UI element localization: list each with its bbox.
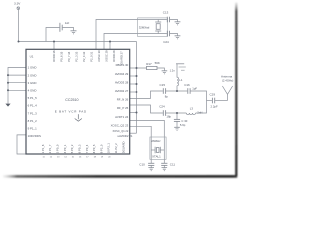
- capacitor C14 plates: [166, 31, 168, 37]
- capacitor C10 plates: [148, 162, 154, 164]
- bottom pin labels (rotated): [41, 141, 126, 153]
- svg-text:17: 17: [86, 157, 89, 159]
- crystal X2 stubs: [157, 20, 159, 23]
- wire top pin DVDD left stub: [53, 42, 55, 50]
- wire C11 to ground: [163, 165, 165, 167]
- wire R17 to ground: [157, 68, 164, 71]
- bottom pin numbers: [43, 157, 112, 159]
- wire RBIAS: [130, 67, 147, 69]
- wire RF_N: [130, 105, 163, 113]
- svg-text:R17: R17: [146, 62, 152, 66]
- ground (C10): [148, 168, 154, 171]
- svg-text:16: 16: [79, 157, 82, 159]
- stub AVDD 21: [130, 132, 137, 134]
- ground (C14): [175, 36, 181, 39]
- svg-text:2.2pF: 2.2pF: [211, 104, 218, 108]
- svg-text:4 P0_1: 4 P0_1: [63, 144, 67, 153]
- svg-text:5 P0_2: 5 P0_2: [70, 144, 74, 153]
- inductor L3 horizontal: [186, 113, 195, 115]
- svg-text:2 GND: 2 GND: [28, 73, 37, 77]
- svg-text:C24: C24: [163, 40, 169, 44]
- wire XOSC top 2: [104, 34, 167, 50]
- page drop shadow right edge: [3, 3, 237, 178]
- svg-text:P2_4 32: P2_4 32: [82, 51, 86, 62]
- capacitor C16 plates: [187, 88, 189, 94]
- svg-text:1 GND: 1 GND: [28, 66, 37, 70]
- svg-text:RF_P 25: RF_P 25: [117, 106, 129, 110]
- capacitor C24 plates: [162, 110, 164, 116]
- capacitor C11 plates: [161, 162, 167, 164]
- resistor R17 body: [147, 66, 158, 69]
- capacitor C1 plates: [59, 23, 61, 32]
- crystal module box bottom: [150, 137, 166, 159]
- decoration center mark: [75, 114, 82, 121]
- svg-text:DVDD 36: DVDD 36: [52, 50, 56, 62]
- ground symbols: [5, 22, 180, 171]
- svg-text:26MHz: 26MHz: [151, 139, 161, 143]
- page drop shadow bottom edge: [3, 175, 237, 178]
- svg-text:E BAT VCR PAD: E BAT VCR PAD: [55, 109, 87, 113]
- svg-text:XOSC 29: XOSC 29: [104, 50, 108, 62]
- L1 top bar symbol: [176, 63, 184, 65]
- wire RF_P mid: [166, 90, 187, 92]
- svg-text:11: 11: [43, 157, 46, 159]
- svg-text:L1: L1: [179, 78, 183, 82]
- stub AVDD 27: [130, 91, 137, 93]
- left pin labels: [28, 66, 41, 138]
- svg-text:DVDD 28: DVDD 28: [112, 50, 116, 62]
- wire C30 to ground: [176, 121, 178, 127]
- svg-text:XOSC 30: XOSC 30: [97, 50, 101, 62]
- wire RF_P to joint: [191, 91, 207, 101]
- svg-text:C24: C24: [159, 105, 165, 109]
- svg-text:1uF: 1uF: [65, 21, 70, 25]
- svg-text:12: 12: [50, 157, 53, 159]
- svg-text:10 P2_1: 10 P2_1: [107, 143, 111, 154]
- wire top pin DVDD right stub: [109, 42, 111, 50]
- svg-text:1pF: 1pF: [192, 86, 197, 90]
- svg-text:P2_3 33: P2_3 33: [74, 51, 78, 62]
- top pin labels (rotated): [52, 50, 124, 65]
- ground (C13): [175, 22, 181, 25]
- right side AVDD rail: [136, 42, 138, 134]
- power symbol 3.3V: [17, 7, 20, 10]
- svg-text:9 P2_0: 9 P2_0: [99, 144, 103, 153]
- svg-text:4 GND: 4 GND: [28, 89, 37, 93]
- ground (R17): [162, 71, 168, 74]
- stub AVDD 28: [130, 83, 137, 85]
- wire cap to ground: [63, 28, 74, 31]
- svg-text:C29: C29: [210, 92, 216, 96]
- wire decoupling branch vertical: [46, 28, 59, 42]
- svg-text:56K: 56K: [155, 61, 160, 65]
- wire C10 to ground: [150, 165, 152, 167]
- stub AVDD 29: [130, 75, 137, 77]
- ground (1uF cap): [71, 31, 77, 34]
- ground (C11): [162, 168, 168, 171]
- junction dots: [7, 41, 178, 115]
- svg-text:15: 15: [72, 157, 75, 159]
- ground (C30): [174, 127, 180, 130]
- svg-text:1.2n: 1.2n: [170, 69, 176, 73]
- svg-text:C16: C16: [184, 83, 190, 87]
- svg-text:XOSC_Q1 22: XOSC_Q1 22: [112, 129, 128, 133]
- svg-text:9 P1_1: 9 P1_1: [28, 127, 38, 131]
- svg-text:GUARD 27: GUARD 27: [119, 51, 123, 65]
- wire XOSC_Q2: [130, 126, 152, 163]
- svg-text:8 P1_2: 8 P1_2: [28, 119, 38, 123]
- svg-text:3 P0_0: 3 P0_0: [56, 144, 60, 153]
- capacitor C30 shunt plates: [176, 113, 178, 119]
- wire C29 to antenna: [215, 100, 227, 102]
- power 3.3V vertical wire: [18, 10, 20, 42]
- capacitor C29 plates: [211, 98, 213, 104]
- svg-text:8p: 8p: [165, 95, 169, 99]
- svg-text:AVDD4 29: AVDD4 29: [115, 72, 129, 76]
- wire XOSC top 1: [96, 20, 167, 50]
- svg-text:AVDD2 27: AVDD2 27: [115, 89, 129, 93]
- svg-text:L3: L3: [190, 106, 194, 110]
- wire C14 to ground: [170, 34, 178, 36]
- svg-text:13: 13: [57, 157, 60, 159]
- wire 3.3V rail horizontal: [19, 41, 137, 43]
- wire C13 to ground: [170, 20, 178, 22]
- crystal module box top: [138, 18, 168, 37]
- svg-text:2 P1_7: 2 P1_7: [48, 144, 52, 153]
- crystal XTAL1 body: [156, 148, 159, 153]
- svg-text:6 P1_4: 6 P1_4: [28, 104, 38, 108]
- capacitor C13 plates: [166, 17, 168, 23]
- svg-text:8 P0_5: 8 P0_5: [92, 144, 96, 153]
- svg-text:19: 19: [101, 157, 104, 159]
- svg-text:5.6p: 5.6p: [180, 123, 186, 127]
- wire RF_N mid: [166, 112, 186, 114]
- wire XOSC_Q1: [130, 120, 165, 163]
- svg-text:U1: U1: [30, 54, 34, 58]
- svg-text:uAVDD2 21: uAVDD2 21: [117, 134, 132, 138]
- svg-text:(2.4GHz): (2.4GHz): [222, 78, 233, 82]
- wire joint to C29: [207, 100, 212, 102]
- wire RF_P: [130, 91, 163, 98]
- crystal XTAL1 stubs: [151, 149, 155, 151]
- ground (left GND bus) triangle: [5, 104, 10, 107]
- svg-text:C10: C10: [139, 162, 145, 166]
- svg-text:32MXtal: 32MXtal: [139, 26, 150, 30]
- svg-text:20: 20: [108, 157, 111, 159]
- antenna symbol: [222, 86, 227, 101]
- inductor L1 vertical: [177, 64, 178, 91]
- svg-text:3.3V: 3.3V: [14, 1, 21, 5]
- crystal XTAL1 plates: [154, 147, 156, 153]
- svg-text:2nH: 2nH: [197, 110, 202, 114]
- wire L3 to joint: [196, 101, 207, 114]
- svg-text:AVDT1 24: AVDT1 24: [115, 115, 129, 119]
- svg-text:P0_6 35: P0_6 35: [59, 51, 63, 62]
- svg-text:RF_N 26: RF_N 26: [117, 98, 129, 102]
- svg-text:CC2510: CC2510: [65, 98, 78, 102]
- svg-text:18p: 18p: [166, 114, 171, 118]
- svg-text:11 P2_2: 11 P2_2: [114, 143, 118, 153]
- wire DCOUPL pin 10: [17, 135, 26, 154]
- crystal X2 body: [156, 24, 160, 30]
- svg-text:AVDD3 28: AVDD3 28: [115, 80, 129, 84]
- svg-text:14: 14: [64, 157, 67, 159]
- svg-text:7 P1_3: 7 P1_3: [28, 111, 38, 115]
- svg-text:1 P1_6: 1 P1_6: [41, 144, 45, 153]
- stub AVDD rail end: [130, 112, 137, 114]
- svg-text:XOSC_Q2 23: XOSC_Q2 23: [111, 123, 129, 127]
- svg-text:C13: C13: [163, 10, 169, 14]
- svg-text:3 GND: 3 GND: [28, 81, 37, 85]
- svg-text:7 P0_4: 7 P0_4: [85, 144, 89, 153]
- svg-text:6 P0_3: 6 P0_3: [78, 144, 82, 153]
- svg-text:C15: C15: [160, 83, 166, 87]
- svg-text:P0_7 34: P0_7 34: [67, 51, 71, 62]
- svg-text:DGUARD: DGUARD: [121, 141, 125, 153]
- svg-text:C11: C11: [170, 162, 176, 166]
- capacitor C15 plates: [162, 88, 164, 94]
- svg-text:5 P1_5: 5 P1_5: [28, 96, 38, 100]
- left GND bus wires: [8, 68, 26, 104]
- svg-text:P2_0 31: P2_0 31: [89, 51, 93, 62]
- IC U1 CC2510 body: [26, 49, 130, 154]
- svg-text:10DVDDS: 10DVDDS: [28, 134, 41, 138]
- right pin labels: [111, 63, 133, 138]
- crystal X2 plates: [155, 21, 161, 23]
- svg-text:XTAL1: XTAL1: [152, 155, 161, 159]
- svg-text:18: 18: [94, 157, 97, 159]
